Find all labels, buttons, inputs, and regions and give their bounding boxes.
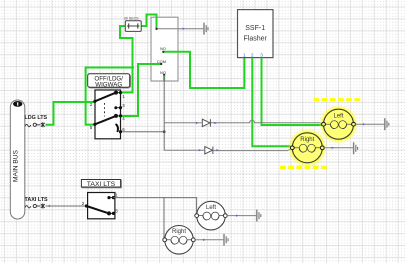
label box TAXI LTS bbox=[81, 180, 121, 189]
switch SW2 pin stubs bbox=[109, 198, 113, 214]
svg-text:Flasher: Flasher bbox=[244, 36, 268, 43]
svg-text:TAXI LTS: TAXI LTS bbox=[87, 181, 116, 188]
wire: Right lamp to ground bbox=[324, 147, 353, 149]
switch SW2 lever bbox=[87, 206, 110, 213]
junction bbox=[131, 66, 134, 69]
svg-text:WIGWAG: WIGWAG bbox=[95, 82, 122, 89]
wire green: SSF pin2 down to Right lamp bbox=[252, 58, 292, 148]
arrow (blue) on TAXI wire bbox=[49, 205, 52, 207]
wire: taxi breaker to switch SW2 bbox=[46, 205, 87, 207]
ground (Right lamp) bbox=[354, 142, 358, 154]
ground (bottom Right lamp) bbox=[224, 234, 228, 246]
wire green: junction down to pin5 bbox=[86, 102, 95, 125]
wire: Left lamp to ground bbox=[355, 123, 384, 125]
ground (Left lamp) bbox=[385, 118, 389, 130]
wire green: up to timer left pin bbox=[120, 26, 133, 68]
breaker TAXI LTS bbox=[25, 204, 45, 209]
arrow (blue) bbox=[183, 28, 186, 30]
switch SW2 pins bbox=[85, 196, 115, 215]
wire green: relay NO2 stub bbox=[163, 75, 165, 81]
svg-text:1: 1 bbox=[243, 52, 246, 57]
switch SW1 lever pole A bbox=[95, 93, 116, 102]
wire: D2 to Right lamp bbox=[214, 148, 292, 150]
wire: bottom Left lamp to ground bbox=[227, 215, 256, 217]
ground (bottom Left lamp) bbox=[257, 210, 261, 222]
relay box bbox=[151, 17, 178, 81]
switch SW2 (SPDT) body bbox=[88, 193, 115, 219]
wire: relay NO2 down (gray) bbox=[163, 75, 165, 150]
wire: switch pin6 to junction bbox=[121, 131, 164, 133]
wire: branch down to bottom Right lamp bbox=[163, 198, 165, 240]
svg-text:TAXI LTS: TAXI LTS bbox=[25, 197, 49, 203]
switch SW1 pins (dots) bbox=[93, 91, 122, 134]
arrow (blue) on LDG wire bbox=[46, 124, 49, 126]
svg-text:NO: NO bbox=[160, 46, 166, 51]
arrows (blue) around D1 bbox=[196, 122, 199, 124]
wire green: down to switch pin1 bbox=[121, 68, 133, 93]
wire green: relay NO1 to SSF pin1 bbox=[163, 52, 244, 88]
svg-text:SSF-1: SSF-1 bbox=[245, 25, 265, 32]
main bus bbox=[10, 100, 24, 219]
svg-text:Left: Left bbox=[206, 205, 216, 211]
wire: bottom Right lamp to ground bbox=[195, 239, 223, 241]
wire green: junction up and right bbox=[86, 68, 133, 103]
switch SW1 pin stubs bbox=[116, 93, 121, 116]
timer 30 SECS bbox=[124, 17, 141, 32]
yellow dashes above Left lamp bbox=[314, 98, 363, 101]
wire: D1 to Left lamp (with hop over green) bbox=[211, 120, 324, 124]
junction bbox=[84, 101, 87, 104]
relay coil green stub bbox=[156, 17, 158, 29]
breaker LDG LTS bbox=[25, 122, 45, 127]
switch SW1 arc near pin6 bbox=[116, 125, 118, 132]
lamp Left (top, highlighted) bbox=[322, 107, 356, 141]
svg-text:3: 3 bbox=[260, 52, 263, 57]
label box OFF/LDG/WIGWAG bbox=[88, 74, 131, 89]
svg-text:Right: Right bbox=[172, 229, 186, 235]
svg-text:30 SECS: 30 SECS bbox=[124, 17, 139, 21]
switch SW1 (DPDT) body bbox=[95, 90, 121, 139]
wire: SW2 pin1 to bottom lamps bbox=[113, 198, 196, 216]
wire: branch to diode D1 bbox=[164, 122, 201, 124]
wire green: timer right to relay coil bbox=[141, 15, 157, 30]
switch SW1 lever pole B bbox=[95, 116, 116, 124]
lamp Right (bottom) bbox=[163, 226, 195, 255]
wire green: relay COM stub bbox=[151, 63, 161, 65]
wire green: relay COM to switch pin4 bbox=[121, 64, 151, 116]
svg-text:Right: Right bbox=[300, 137, 314, 143]
wire: relay coil to ground bbox=[158, 28, 204, 30]
relay pin dots bbox=[155, 28, 165, 76]
diode D1 bbox=[202, 119, 210, 126]
SSF-1 Flasher box bbox=[238, 10, 274, 58]
switch SW1 pin labels bbox=[90, 94, 126, 132]
ground (relay coil) bbox=[204, 23, 208, 35]
svg-text:MAIN BUS: MAIN BUS bbox=[13, 149, 20, 181]
yellow dashes below Right lamp bbox=[280, 166, 329, 169]
svg-text:Left: Left bbox=[333, 113, 343, 119]
arrows (blue) around D2 bbox=[199, 149, 202, 151]
switch SW1 mechanical link (dashed) bbox=[104, 103, 106, 117]
svg-text:LDG LTS: LDG LTS bbox=[25, 115, 48, 121]
wire green: breaker to switch pin2 bbox=[46, 102, 96, 125]
lamp Left (bottom) bbox=[195, 201, 227, 230]
junction bbox=[163, 130, 166, 133]
diode D2 bbox=[205, 147, 213, 154]
svg-text:2: 2 bbox=[251, 52, 254, 57]
wire green: SSF pin3 down to Left lamp bbox=[262, 58, 324, 125]
lamp Right (top, highlighted) bbox=[290, 131, 324, 165]
switch SW2 pin labels bbox=[82, 193, 119, 214]
wire: branch to diode D2 bbox=[164, 149, 204, 151]
